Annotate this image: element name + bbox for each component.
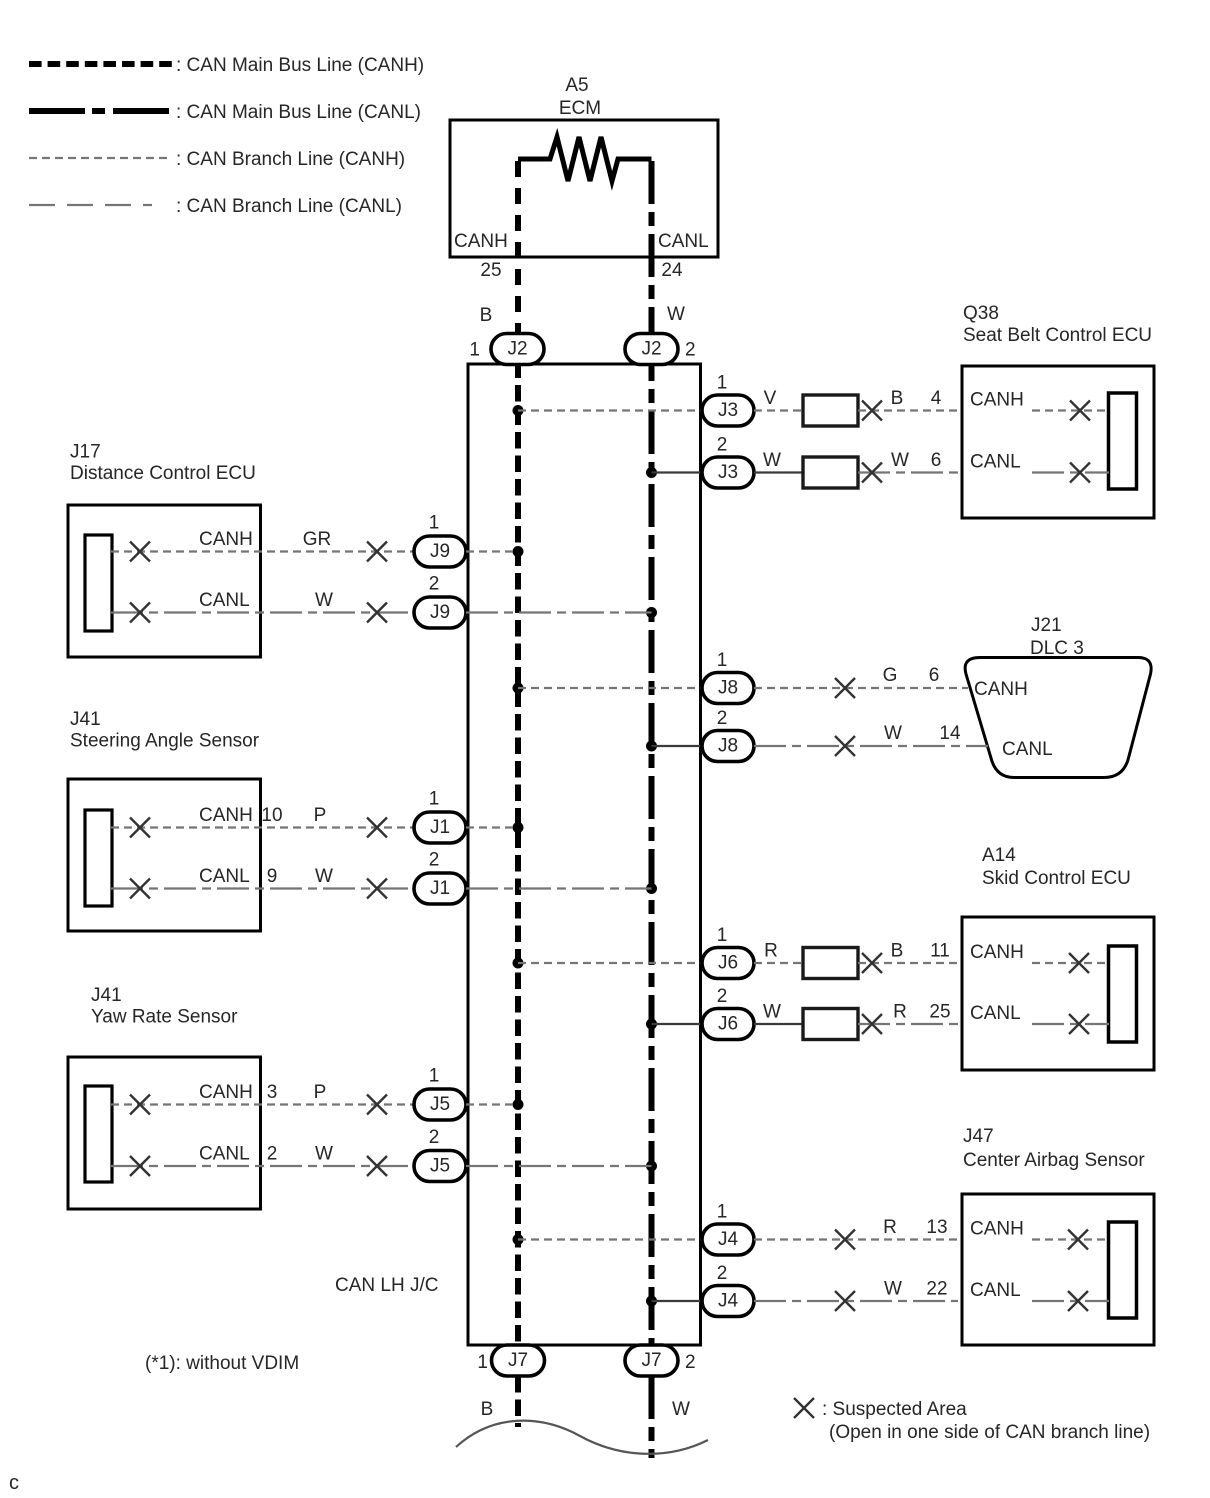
suspected area X (J6 CANH) bbox=[862, 953, 882, 973]
svg-text:4: 4 bbox=[931, 388, 942, 409]
node junction J6 CANH on bus bbox=[513, 958, 524, 969]
connector J7 pin 2 outline bbox=[625, 1345, 678, 1376]
component box J47 bbox=[962, 1194, 1154, 1345]
connector J2 pin 2 outline bbox=[625, 334, 678, 365]
svg-text:J2: J2 bbox=[641, 339, 661, 360]
wire J9 CANL branch (component side) bbox=[111, 611, 414, 613]
node junction J5 CANH on bus bbox=[513, 1099, 524, 1110]
svg-text:P: P bbox=[314, 1082, 327, 1103]
wire J1 CANL to bus bbox=[466, 887, 652, 889]
svg-text:9: 9 bbox=[267, 866, 278, 887]
node junction J9 CANL on bus bbox=[646, 607, 657, 618]
svg-text:Steering Angle Sensor: Steering Angle Sensor bbox=[70, 731, 260, 752]
suspected area X (J1 CANH, left) bbox=[130, 818, 150, 838]
inline connector (J6 CANL) bbox=[803, 1009, 858, 1040]
svg-text:1: 1 bbox=[717, 650, 728, 671]
svg-text:CANH: CANH bbox=[199, 805, 253, 826]
svg-text:R: R bbox=[883, 1217, 897, 1238]
svg-text:22: 22 bbox=[926, 1279, 947, 1300]
connector J2 pin 2 bbox=[625, 334, 678, 365]
wire CANH inside J47 bbox=[1032, 1238, 1109, 1240]
wire J6 CANL to ECU bbox=[858, 1023, 958, 1025]
svg-text:1: 1 bbox=[429, 1066, 440, 1087]
suspected area X (J6 CANL) bbox=[862, 1014, 882, 1034]
svg-text:CANH: CANH bbox=[199, 529, 253, 550]
component label Q38 Seat Belt Control ECU bbox=[963, 303, 1152, 346]
svg-text:J3: J3 bbox=[718, 400, 738, 421]
suspected area X (J9 CANL, left) bbox=[130, 603, 150, 623]
component box A14 bbox=[962, 917, 1154, 1070]
svg-text:J47: J47 bbox=[963, 1126, 994, 1147]
resistor (terminating, inside ECM) bbox=[518, 137, 652, 181]
svg-text:P: P bbox=[314, 805, 327, 826]
node junction J1 CANL on bus bbox=[646, 883, 657, 894]
suspected area X (J9 CANL, right) bbox=[367, 603, 387, 623]
svg-text:Yaw Rate Sensor: Yaw Rate Sensor bbox=[91, 1007, 238, 1028]
component box Q38 bbox=[962, 366, 1154, 518]
svg-text:W: W bbox=[667, 304, 685, 325]
connector J6 pin 2 bbox=[702, 1009, 754, 1040]
svg-text:10: 10 bbox=[261, 805, 282, 826]
wire J6 CANL to inline connector bbox=[754, 1023, 803, 1025]
component box Yaw Rate Sensor bbox=[68, 1057, 261, 1209]
junction block CAN LH J/C box bbox=[468, 364, 701, 1345]
svg-text:14: 14 bbox=[939, 723, 961, 744]
connector J8 pin 2 bbox=[702, 731, 754, 762]
svg-text:J21: J21 bbox=[1031, 615, 1062, 636]
svg-text:W: W bbox=[884, 1279, 902, 1300]
wire J9 CANH branch (component side) bbox=[111, 550, 414, 552]
svg-text:W: W bbox=[884, 723, 902, 744]
svg-text:11: 11 bbox=[930, 941, 950, 962]
svg-text:1: 1 bbox=[717, 373, 728, 394]
legend line: CAN Branch Line (CANH) bbox=[29, 149, 405, 170]
connector J2 pin 1 bbox=[491, 334, 544, 365]
connector pin block (Distance Control ECU) bbox=[85, 535, 112, 631]
svg-text:DLC 3: DLC 3 bbox=[1030, 638, 1084, 659]
svg-text:25: 25 bbox=[480, 260, 501, 281]
svg-text:1: 1 bbox=[429, 513, 440, 534]
svg-text:2: 2 bbox=[685, 1352, 696, 1373]
component shape DLC 3 (trapezoid) bbox=[965, 658, 1151, 778]
svg-text:J17: J17 bbox=[70, 442, 101, 463]
svg-text:J8: J8 bbox=[718, 736, 738, 757]
svg-text:1: 1 bbox=[717, 1202, 728, 1223]
connector J8 pin 1 bbox=[702, 673, 754, 704]
wire CAN main bus CANH (vertical, dashed) bbox=[515, 338, 521, 1372]
wire ECM CANH pin lead (dashed) bbox=[515, 161, 521, 340]
wire CANL bus below J7 bbox=[649, 1376, 655, 1458]
suspected area X (Q38 CANH internal) bbox=[1070, 401, 1090, 421]
connector pin block (J47) bbox=[1109, 1222, 1137, 1318]
svg-text:24: 24 bbox=[661, 260, 683, 281]
svg-text:2: 2 bbox=[685, 340, 696, 361]
connector J1 pin 1 bbox=[414, 812, 466, 843]
component label J41 Steering Angle Sensor bbox=[70, 709, 260, 752]
legend suspected area text bbox=[822, 1399, 1150, 1443]
svg-text:CANH: CANH bbox=[970, 942, 1024, 963]
wire J8 CANL to DLC3 bbox=[754, 745, 988, 747]
wire J4 CANH from bus bbox=[518, 1238, 702, 1240]
svg-text:R: R bbox=[893, 1002, 907, 1023]
wire CANL inside J47 bbox=[1032, 1300, 1109, 1302]
svg-text:3: 3 bbox=[267, 1082, 278, 1103]
svg-text:J7: J7 bbox=[508, 1350, 528, 1371]
suspected area X (J9 CANH, left) bbox=[130, 542, 150, 562]
wire J8 CANL stub from bus bbox=[652, 745, 703, 747]
legend suspected area X bbox=[794, 1398, 814, 1418]
suspected area X (J5 CANL, right) bbox=[367, 1156, 387, 1176]
wire J8 CANH to DLC3 bbox=[754, 687, 968, 689]
ECU A5 ECM label bbox=[559, 75, 601, 119]
component label J17 Distance Control ECU bbox=[70, 442, 256, 485]
svg-text:V: V bbox=[764, 388, 777, 409]
connector J4 pin 1 bbox=[702, 1224, 754, 1255]
svg-text:CANL: CANL bbox=[658, 231, 709, 252]
svg-text:J5: J5 bbox=[430, 1094, 450, 1115]
svg-text:CANL: CANL bbox=[199, 866, 250, 887]
svg-text:G: G bbox=[883, 665, 898, 686]
svg-text:W: W bbox=[315, 590, 333, 611]
inline connector (J3 CANH) bbox=[803, 395, 858, 426]
connector J3 pin 1 bbox=[702, 395, 754, 426]
wire J5 CANL to bus bbox=[466, 1165, 652, 1167]
svg-text:CANH: CANH bbox=[974, 679, 1028, 700]
svg-text:CANH: CANH bbox=[970, 390, 1024, 411]
svg-text:2: 2 bbox=[717, 1263, 728, 1284]
svg-text:1: 1 bbox=[429, 789, 440, 810]
svg-text:2: 2 bbox=[429, 850, 440, 871]
suspected area X (A14 CANL internal) bbox=[1069, 1014, 1089, 1034]
svg-text:J4: J4 bbox=[718, 1229, 739, 1250]
svg-text:A5: A5 bbox=[565, 75, 588, 96]
svg-text:J41: J41 bbox=[70, 709, 101, 730]
component box Distance Control ECU bbox=[68, 505, 261, 657]
svg-text:: CAN Branch Line (CANH): : CAN Branch Line (CANH) bbox=[176, 149, 405, 170]
svg-text:W: W bbox=[763, 1002, 781, 1023]
svg-text:2: 2 bbox=[267, 1144, 278, 1165]
svg-text:2: 2 bbox=[717, 435, 728, 456]
connector pin block (Q38) bbox=[1109, 393, 1137, 489]
wire J4 CANL to sensor bbox=[754, 1300, 958, 1302]
node junction J1 CANH on bus bbox=[513, 822, 524, 833]
suspected area X (J5 CANH, left) bbox=[130, 1095, 150, 1115]
connector J5 pin 1 bbox=[414, 1089, 466, 1120]
svg-text:6: 6 bbox=[931, 450, 942, 471]
svg-text:: Suspected Area: : Suspected Area bbox=[822, 1399, 967, 1420]
svg-text:2: 2 bbox=[717, 708, 728, 729]
wire J1 CANH branch (component side) bbox=[111, 826, 414, 828]
component label J47 Center Airbag Sensor bbox=[963, 1126, 1145, 1171]
suspected area X (J1 CANL, right) bbox=[367, 879, 387, 899]
svg-text:CANL: CANL bbox=[199, 590, 250, 611]
svg-text:CANH: CANH bbox=[199, 1082, 253, 1103]
svg-text:W: W bbox=[763, 450, 781, 471]
wire J6 CANH to inline connector bbox=[754, 962, 803, 964]
wire CANL inside A14 bbox=[1032, 1023, 1109, 1025]
svg-text:Distance Control ECU: Distance Control ECU bbox=[70, 463, 256, 484]
wire J9 CANL to bus bbox=[466, 611, 652, 613]
ECU A5 ECM box bbox=[450, 120, 718, 257]
svg-text:J5: J5 bbox=[430, 1156, 450, 1177]
svg-text:6: 6 bbox=[929, 665, 940, 686]
svg-text:J1: J1 bbox=[430, 817, 450, 838]
connector J1 pin 2 bbox=[414, 873, 466, 904]
svg-text:Center Airbag Sensor: Center Airbag Sensor bbox=[963, 1150, 1145, 1171]
wire J5 CANL branch (component side) bbox=[111, 1165, 414, 1167]
wire J1 CANH to bus bbox=[466, 826, 518, 828]
component label J21 DLC 3 bbox=[1030, 615, 1084, 659]
svg-text:B: B bbox=[481, 1399, 494, 1420]
suspected area X (J1 CANH, right) bbox=[367, 818, 387, 838]
connector J3 pin 2 bbox=[702, 457, 754, 488]
wire J3 CANL to inline connector bbox=[754, 471, 803, 473]
wire J4 CANL stub from bus bbox=[652, 1300, 703, 1302]
suspected area X (J8 CANL) bbox=[835, 736, 855, 756]
wire J5 CANH branch (component side) bbox=[111, 1103, 414, 1105]
svg-text:Seat Belt Control ECU: Seat Belt Control ECU bbox=[963, 325, 1152, 346]
wire J3 CANH from bus bbox=[518, 409, 702, 411]
svg-text:CANH: CANH bbox=[970, 1219, 1024, 1240]
suspected area X (J47 CANH internal) bbox=[1068, 1230, 1088, 1250]
node junction J6 CANL on bus bbox=[646, 1019, 657, 1030]
inline connector (J3 CANL) bbox=[803, 457, 858, 488]
wire J3 CANH to ECU bbox=[858, 409, 958, 411]
wire J6 CANL stub from bus bbox=[652, 1023, 703, 1025]
svg-text:: CAN Main Bus Line (CANH): : CAN Main Bus Line (CANH) bbox=[176, 55, 424, 76]
wire CANH inside Q38 bbox=[1032, 409, 1109, 411]
svg-text:(Open in one side of CAN branc: (Open in one side of CAN branch line) bbox=[829, 1422, 1150, 1443]
svg-text:J6: J6 bbox=[718, 953, 738, 974]
svg-text:B: B bbox=[891, 388, 904, 409]
wire J6 CANH from bus bbox=[518, 962, 702, 964]
svg-text:W: W bbox=[672, 1399, 690, 1420]
legend line: CAN Branch Line (CANL) bbox=[29, 196, 402, 217]
connector J9 pin 1 bbox=[414, 536, 466, 567]
svg-text:A14: A14 bbox=[982, 845, 1016, 866]
wire J3 CANL stub from bus bbox=[652, 471, 703, 473]
svg-text:ECM: ECM bbox=[559, 98, 601, 119]
legend line: CAN Main Bus Line (CANL) bbox=[29, 102, 421, 123]
wire J9 CANH to bus bbox=[466, 550, 518, 552]
suspected area X (J1 CANL, left) bbox=[130, 879, 150, 899]
wire J3 CANL to ECU bbox=[858, 471, 958, 473]
suspected area X (Q38 CANL internal) bbox=[1070, 463, 1090, 483]
suspected area X (A14 CANH internal) bbox=[1069, 953, 1089, 973]
svg-text:CANH: CANH bbox=[454, 231, 508, 252]
svg-text:J41: J41 bbox=[91, 985, 122, 1006]
svg-text:J2: J2 bbox=[507, 339, 527, 360]
svg-text:B: B bbox=[480, 305, 493, 326]
svg-text:J6: J6 bbox=[718, 1014, 738, 1035]
svg-text:1: 1 bbox=[477, 1352, 488, 1373]
suspected area X (J8 CANH) bbox=[835, 678, 855, 698]
svg-text:GR: GR bbox=[303, 529, 332, 550]
suspected area X (J4 CANH) bbox=[835, 1230, 855, 1250]
svg-text:J8: J8 bbox=[718, 678, 738, 699]
svg-text:J7: J7 bbox=[641, 1350, 661, 1371]
svg-text:: CAN Main Bus Line (CANL): : CAN Main Bus Line (CANL) bbox=[176, 102, 421, 123]
svg-text:CANL: CANL bbox=[970, 1003, 1021, 1024]
suspected area X (J5 CANL, left) bbox=[130, 1156, 150, 1176]
svg-text:W: W bbox=[891, 450, 909, 471]
svg-text:CANL: CANL bbox=[199, 1144, 250, 1165]
wire break (wavy line) bbox=[456, 1421, 708, 1454]
connector pin block (Steering Angle Sensor) bbox=[85, 810, 112, 906]
node junction J8 CANL on bus bbox=[646, 741, 657, 752]
wire J1 CANL branch (component side) bbox=[111, 887, 414, 889]
svg-text:25: 25 bbox=[929, 1002, 950, 1023]
connector J9 pin 2 bbox=[414, 597, 466, 628]
svg-text:J1: J1 bbox=[430, 878, 450, 899]
svg-text:1: 1 bbox=[717, 925, 728, 946]
suspected area X (J9 CANH, right) bbox=[367, 542, 387, 562]
suspected area X (J47 CANL internal) bbox=[1068, 1291, 1088, 1311]
svg-text:J9: J9 bbox=[430, 541, 450, 562]
wire ECM CANL pin lead (dash-dot) bbox=[649, 161, 655, 334]
connector pin block (A14) bbox=[1109, 946, 1137, 1042]
node junction J5 CANL on bus bbox=[646, 1161, 657, 1172]
svg-text:1: 1 bbox=[469, 340, 480, 361]
connector J5 pin 2 bbox=[414, 1151, 466, 1182]
svg-text:(*1): without VDIM: (*1): without VDIM bbox=[145, 1353, 299, 1374]
svg-text:Skid Control ECU: Skid Control ECU bbox=[982, 868, 1131, 889]
svg-text:J3: J3 bbox=[718, 462, 738, 483]
wire J4 CANH to sensor bbox=[754, 1238, 958, 1240]
legend line: CAN Main Bus Line (CANH) bbox=[29, 55, 424, 76]
wire CANH inside A14 bbox=[1032, 962, 1109, 964]
node junction J4 CANL on bus bbox=[646, 1296, 657, 1307]
svg-text:13: 13 bbox=[926, 1217, 947, 1238]
node junction J4 CANH on bus bbox=[513, 1234, 524, 1245]
svg-text:2: 2 bbox=[717, 986, 728, 1007]
svg-text:CANL: CANL bbox=[1002, 739, 1053, 760]
connector pin block (Yaw Rate Sensor) bbox=[85, 1086, 112, 1182]
wire J6 CANH to ECU bbox=[858, 962, 958, 964]
svg-text:: CAN Branch Line (CANL): : CAN Branch Line (CANL) bbox=[176, 196, 402, 217]
svg-text:CAN LH J/C: CAN LH J/C bbox=[335, 1275, 438, 1296]
wire CANL inside Q38 bbox=[1032, 471, 1109, 473]
inline connector (J6 CANH) bbox=[803, 948, 858, 979]
svg-text:c: c bbox=[9, 1472, 19, 1494]
svg-text:2: 2 bbox=[429, 574, 440, 595]
connector J7 pin 1 outline bbox=[492, 1345, 545, 1376]
connector J7 pin 1 bbox=[492, 1345, 545, 1376]
wire J5 CANH to bus bbox=[466, 1103, 518, 1105]
svg-text:B: B bbox=[891, 941, 904, 962]
svg-text:CANL: CANL bbox=[970, 452, 1021, 473]
svg-text:CANL: CANL bbox=[970, 1280, 1021, 1301]
component box Steering Angle Sensor bbox=[68, 779, 261, 931]
svg-text:J4: J4 bbox=[718, 1291, 739, 1312]
node junction J9 CANH on bus bbox=[513, 546, 524, 557]
suspected area X (J5 CANH, right) bbox=[367, 1095, 387, 1115]
svg-text:W: W bbox=[315, 1144, 333, 1165]
svg-text:W: W bbox=[315, 866, 333, 887]
wire CANH bus below J7 bbox=[515, 1376, 521, 1427]
suspected area X (J3 CANL) bbox=[862, 463, 882, 483]
connector J4 pin 2 bbox=[702, 1286, 754, 1317]
svg-text:R: R bbox=[764, 941, 778, 962]
node junction J8 CANH on bus bbox=[513, 683, 524, 694]
wire CAN main bus CANL (vertical, dash-dot) bbox=[649, 338, 655, 1372]
connector J6 pin 1 bbox=[702, 948, 754, 979]
component label J41 Yaw Rate Sensor bbox=[91, 985, 238, 1028]
suspected area X (J4 CANL) bbox=[835, 1291, 855, 1311]
connector J7 pin 2 bbox=[625, 1345, 678, 1376]
svg-text:2: 2 bbox=[429, 1127, 440, 1148]
node junction J3 CANL on bus bbox=[646, 467, 657, 478]
component label A14 Skid Control ECU bbox=[982, 845, 1131, 889]
wire J3 CANH to inline connector bbox=[754, 409, 803, 411]
connector J2 pin 1 outline bbox=[491, 334, 544, 365]
suspected area X (J3 CANH) bbox=[862, 401, 882, 421]
svg-text:J9: J9 bbox=[430, 602, 450, 623]
node junction J3 CANH on bus bbox=[513, 405, 524, 416]
svg-text:Q38: Q38 bbox=[963, 303, 999, 324]
wire J8 CANH from bus bbox=[518, 687, 702, 689]
